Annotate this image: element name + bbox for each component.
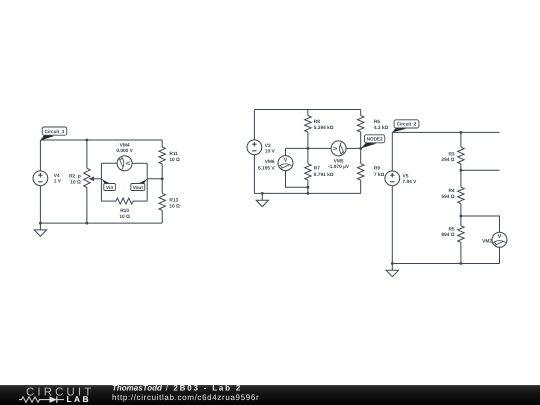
svg-text:R11: R11 [169, 151, 178, 157]
svg-text:0.000 V: 0.000 V [116, 148, 133, 154]
svg-text:10 Ω: 10 Ω [70, 180, 81, 186]
wire stub row 1 [461, 169, 500, 171]
wire VM5 row right [346, 147, 361, 149]
wire loop bottom left segment [101, 200, 116, 202]
wire top rail middle circuit [254, 109, 360, 111]
logo LAB text [67, 394, 91, 404]
svg-text:V: V [124, 161, 130, 165]
resistor R7 [305, 148, 334, 193]
svg-text:10 Ω: 10 Ω [169, 157, 180, 163]
svg-text:R8: R8 [314, 119, 320, 125]
node R5 bottom junction [460, 262, 463, 265]
wire loop bottom right segment [133, 200, 147, 202]
svg-text:594 Ω: 594 Ω [441, 194, 454, 200]
node Vout tag [131, 179, 147, 191]
node VM6 return junction [307, 186, 310, 189]
node NODE2 junction [359, 147, 362, 150]
logo CIRCUIT text [26, 386, 94, 398]
wire bottom rail circuit 2 [392, 263, 499, 265]
svg-text:V5: V5 [403, 174, 409, 180]
resistor R4 [441, 170, 464, 216]
svg-text:294 Ω: 294 Ω [441, 157, 454, 163]
svg-text:VM4: VM4 [120, 143, 130, 149]
svg-text:R6: R6 [374, 119, 380, 125]
svg-text:7 kΩ: 7 kΩ [374, 172, 385, 178]
svg-text:R4: R4 [448, 188, 454, 194]
flag NODE2 [361, 135, 385, 149]
svg-text:4.3 kΩ: 4.3 kΩ [374, 125, 389, 131]
wire potentiometer bottom lead [86, 188, 88, 224]
svg-text:Circuit_2: Circuit_2 [397, 122, 417, 127]
wire top rail circuit 2 [392, 131, 499, 133]
resistor R11 [159, 140, 180, 179]
wire V3 top [253, 110, 255, 140]
node middle ground junction [261, 192, 264, 195]
voltmeter VM5 [328, 141, 350, 170]
resistor R8 [305, 110, 334, 149]
wire left branch V4 top [39, 140, 41, 171]
svg-text:R13: R13 [169, 198, 178, 204]
ground circuit 2 [386, 264, 398, 277]
voltage source V5 [385, 171, 417, 186]
wire bottom rail circuit 3 [40, 222, 162, 224]
potentiometer R2_p [69, 168, 101, 187]
svg-text:V4: V4 [54, 173, 60, 179]
wire VM5 row left [286, 147, 332, 149]
svg-text:NODE2: NODE2 [367, 137, 383, 142]
wire meter loop top right segment [132, 162, 147, 164]
footer url line [112, 393, 259, 402]
svg-text:R10: R10 [120, 208, 129, 214]
wire bottom rail middle circuit [254, 192, 360, 194]
svg-text:-1.970 µV: -1.970 µV [328, 164, 350, 170]
voltage source V4 [33, 171, 62, 186]
svg-text:LAB: LAB [67, 394, 91, 404]
svg-text:1 V: 1 V [54, 178, 62, 184]
ground middle circuit [256, 193, 268, 206]
node R8 R7 junction [307, 147, 310, 150]
voltmeter VM4 [116, 143, 133, 171]
svg-text:V3: V3 [265, 143, 271, 149]
resistor R6 [358, 110, 389, 149]
svg-text:R5: R5 [448, 226, 454, 232]
footer title line [112, 384, 242, 393]
node middle branch bottom junction [307, 192, 310, 195]
wire Vout row to R11 R13 junction [147, 178, 162, 180]
svg-text:V: V [333, 146, 339, 150]
wire VM6 top stub [285, 148, 287, 155]
resistor R3 [441, 132, 464, 170]
wire top rail circuit 3 [40, 139, 162, 141]
wire meter loop right vertical [146, 163, 148, 201]
svg-text:ThomasTodd / 2B03 - Lab 2: ThomasTodd / 2B03 - Lab 2 [112, 384, 242, 393]
svg-text:10 Ω: 10 Ω [119, 214, 130, 220]
node R3 top junction [460, 131, 463, 134]
svg-text:10 Ω: 10 Ω [169, 203, 180, 209]
resistor R13 [159, 179, 180, 223]
svg-text:VM2: VM2 [482, 238, 492, 244]
node R4 R5 junction [460, 215, 463, 218]
svg-text:R2_p: R2_p [69, 173, 81, 179]
svg-text:R7: R7 [314, 166, 320, 172]
svg-text:6.195 V: 6.195 V [258, 165, 275, 171]
ground circuit 3 [34, 223, 46, 236]
svg-text:894 Ω: 894 Ω [441, 232, 454, 238]
node R3 R4 junction [460, 169, 463, 172]
resistor R5 [441, 216, 464, 264]
svg-text:V: V [284, 158, 288, 164]
svg-text:R3: R3 [448, 151, 454, 157]
resistor R9 [358, 148, 385, 193]
wire VM2 bottom stub [499, 247, 501, 263]
flag Circuit_3 [40, 127, 67, 141]
wire meter loop left vertical [100, 163, 102, 201]
svg-text:R9: R9 [374, 166, 380, 172]
wire V4 bottom [39, 186, 41, 223]
node R11 R13 junction [161, 177, 164, 180]
svg-text:VM6: VM6 [265, 159, 275, 165]
logo resistor zigzag [19, 397, 50, 402]
node pot bottom junction [86, 222, 89, 225]
wire V5 bottom [391, 186, 393, 264]
svg-text:8.791 kΩ: 8.791 kΩ [314, 172, 334, 178]
wire V5 top [391, 132, 393, 171]
wire potentiometer top lead [86, 140, 88, 168]
svg-text:VM5: VM5 [334, 158, 344, 164]
wire stub row 2 to VM2 [461, 216, 500, 232]
footer bar [0, 385, 540, 405]
svg-text:http://circuitlab.com/c6d4zrua: http://circuitlab.com/c6d4zrua9596r [112, 393, 259, 402]
svg-text:7.94 V: 7.94 V [403, 179, 418, 185]
resistor R10 [116, 198, 133, 220]
svg-text:Vout: Vout [133, 185, 144, 191]
voltmeter VM2 [482, 232, 507, 247]
node Vin tag [101, 179, 115, 191]
svg-text:Vin: Vin [106, 185, 113, 191]
wire V3 bottom [253, 155, 255, 194]
svg-text:5.394 kΩ: 5.394 kΩ [314, 125, 334, 131]
voltage source V3 [247, 140, 275, 155]
logo diode [50, 396, 65, 402]
svg-text:V: V [498, 234, 502, 240]
node V4 ground junction [39, 222, 42, 225]
flag Circuit_2 [392, 120, 419, 133]
wire meter loop top left segment [101, 162, 117, 164]
svg-text:10 V: 10 V [265, 148, 276, 154]
node V5 ground junction [391, 262, 394, 265]
wire VM6 bottom return [286, 171, 308, 188]
voltmeter VM6 [258, 156, 293, 172]
node pot top junction [86, 139, 89, 142]
svg-text:Circuit_3: Circuit_3 [45, 129, 65, 134]
